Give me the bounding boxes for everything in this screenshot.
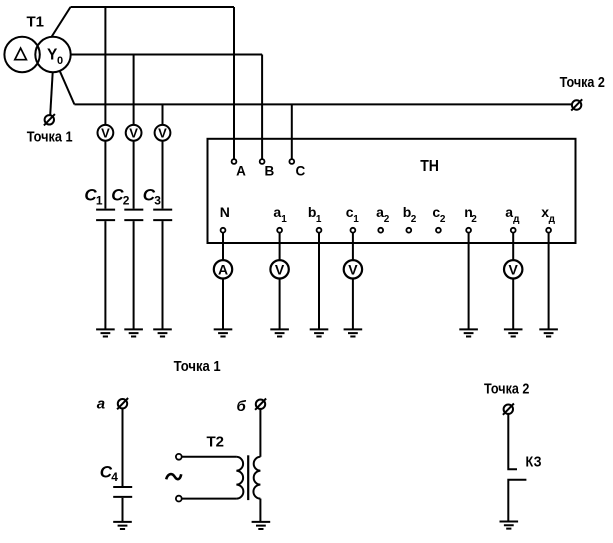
terminal point 2 circle <box>572 100 581 109</box>
svg-text:Точка 1: Точка 1 <box>27 130 73 146</box>
wire aд to voltmeter <box>512 233 514 261</box>
label c2 <box>432 204 446 225</box>
wire C1 to ground <box>104 221 106 329</box>
wire a to capacitor C4 <box>122 409 124 486</box>
ground below c1 <box>344 329 363 336</box>
svg-text:д: д <box>549 214 556 225</box>
wire phase B drop to voltmeter V2 <box>133 55 135 125</box>
label c1 <box>346 204 360 225</box>
label C4 <box>100 462 119 484</box>
wire top bus phase A <box>71 6 235 8</box>
transformer T2 primary winding <box>236 457 243 499</box>
svg-text:V: V <box>275 261 285 277</box>
wire c1 to voltmeter <box>352 233 354 261</box>
transformer T2 core <box>247 455 249 500</box>
switch lower contact <box>508 480 526 522</box>
wire N to ammeter <box>222 233 224 261</box>
svg-text:ТН: ТН <box>420 158 439 175</box>
terminal point 2b slash <box>503 404 514 415</box>
wire T1 phase C diagonal to bottom bus <box>60 72 74 105</box>
svg-text:Точка 2: Точка 2 <box>484 382 529 398</box>
label n2 <box>464 204 477 225</box>
ground below a1 <box>270 329 289 336</box>
transformer T2 secondary winding <box>253 457 260 499</box>
wire T1 phase B middle bus <box>71 54 262 56</box>
terminal b slash <box>255 399 266 410</box>
ammeter A circle <box>214 260 232 278</box>
ground below b1 <box>310 329 329 336</box>
svg-text:V: V <box>101 126 110 141</box>
terminal C circle <box>289 159 294 164</box>
ground below C3 <box>153 329 172 336</box>
wire V3 to capacitor C3 <box>162 141 164 209</box>
wire primary top <box>182 456 237 458</box>
wire ammeter to ground <box>222 279 224 330</box>
wire phase B drop to terminal B <box>261 55 263 160</box>
wire voltmeter V5 to ground <box>352 279 354 330</box>
voltmeter V4 circle <box>270 260 288 278</box>
ground below n2 <box>459 329 478 336</box>
terminal n2 circle <box>466 228 471 233</box>
label a2 <box>376 204 390 225</box>
terminal c1 circle <box>351 228 356 233</box>
svg-text:A: A <box>236 164 246 179</box>
wire primary bottom <box>182 498 237 500</box>
label aд <box>505 204 520 225</box>
wire C4 to ground <box>122 498 124 522</box>
voltage transformer TH box <box>208 139 576 243</box>
capacitor C2 plates <box>124 210 143 221</box>
wire phase A drop to terminal A <box>233 7 235 159</box>
voltmeter V2 circle <box>126 125 142 141</box>
terminal b2 circle <box>406 228 411 233</box>
wire C3 to ground <box>162 221 164 329</box>
wire point 2 down to switch <box>508 414 517 469</box>
voltmeter V1 circle <box>98 125 114 141</box>
capacitor C4 plates <box>113 487 132 497</box>
terminal b circle <box>256 400 265 409</box>
terminal B circle <box>260 159 265 164</box>
terminal point 2b circle <box>504 405 513 414</box>
label C1 <box>84 186 103 208</box>
svg-text:КЗ: КЗ <box>526 455 542 471</box>
ground below C2 <box>124 329 143 336</box>
svg-text:T2: T2 <box>207 433 225 450</box>
delta symbol <box>15 48 27 60</box>
svg-text:1: 1 <box>353 214 359 225</box>
wire T1 neutral to point 1 terminal <box>50 72 53 115</box>
ground below aд <box>504 329 523 336</box>
terminal point 1 slash <box>44 114 55 125</box>
svg-text:V: V <box>158 126 167 141</box>
svg-text:а: а <box>97 395 105 412</box>
svg-text:0: 0 <box>57 55 63 67</box>
wire phase C drop to terminal C <box>291 104 293 159</box>
svg-text:B: B <box>265 164 275 179</box>
ground below xд <box>539 329 558 336</box>
svg-text:A: A <box>218 261 228 277</box>
terminal point 2 slash <box>571 99 582 110</box>
wire n2 to ground <box>468 233 470 330</box>
svg-text:1: 1 <box>281 214 287 225</box>
svg-text:2: 2 <box>440 214 446 225</box>
svg-text:Точка 2: Точка 2 <box>560 75 605 91</box>
voltmeter V5 circle <box>344 260 362 278</box>
wire secondary to ground <box>259 499 261 522</box>
terminal a circle <box>118 399 127 408</box>
svg-text:2: 2 <box>411 214 417 225</box>
capacitor C3 plates <box>153 210 172 221</box>
wire C2 to ground <box>133 221 135 329</box>
terminal a slash <box>117 398 128 409</box>
svg-text:N: N <box>220 204 230 220</box>
capacitor C1 plates <box>96 210 115 221</box>
terminal T2 primary bottom circle <box>176 496 182 502</box>
voltmeter V6 circle <box>504 260 522 278</box>
wire b1 to ground <box>318 233 320 330</box>
terminal a1 circle <box>277 228 282 233</box>
transformer T1 delta winding circle <box>4 37 39 72</box>
svg-text:3: 3 <box>154 193 161 207</box>
label b2 <box>403 204 417 225</box>
svg-text:V: V <box>348 261 358 277</box>
svg-text:1: 1 <box>96 193 103 207</box>
wire voltmeter V6 to ground <box>512 279 514 330</box>
svg-text:V: V <box>129 126 138 141</box>
wire phase C drop to voltmeter V3 <box>162 104 164 125</box>
wire b to secondary <box>259 409 261 457</box>
svg-text:a: a <box>273 204 281 220</box>
wire bottom bus phase C to point 2 <box>74 103 571 105</box>
svg-text:1: 1 <box>316 214 322 225</box>
label Y0 <box>47 47 63 68</box>
transformer T1 wye winding circle <box>35 37 70 72</box>
label tilde AC source <box>166 474 181 479</box>
wire V1 to capacitor C1 <box>104 141 106 209</box>
wire voltmeter V4 to ground <box>279 279 281 330</box>
ground below C4 <box>113 522 132 529</box>
terminal aд circle <box>511 228 516 233</box>
svg-text:б: б <box>237 398 247 415</box>
terminal point 1 circle <box>45 115 54 124</box>
svg-text:д: д <box>513 214 520 225</box>
terminal xд circle <box>546 228 551 233</box>
svg-text:V: V <box>509 261 519 277</box>
terminal T2 primary top circle <box>176 454 182 460</box>
svg-text:2: 2 <box>384 214 390 225</box>
label b1 <box>308 204 322 225</box>
terminal b1 circle <box>317 228 322 233</box>
ground below T2 <box>252 522 271 529</box>
wire xд to ground <box>548 233 550 330</box>
label C3 <box>143 186 162 208</box>
wire T1 phase A diagonal to top bus <box>52 7 71 37</box>
ground below N <box>214 329 233 336</box>
label C2 <box>111 186 130 208</box>
svg-text:2: 2 <box>123 193 130 207</box>
label a1 <box>273 204 287 225</box>
svg-text:2: 2 <box>471 214 477 225</box>
voltmeter V3 circle <box>155 125 171 141</box>
svg-text:a: a <box>505 204 513 220</box>
wire phase A drop to voltmeter V1 <box>104 7 106 125</box>
svg-text:Точка 1: Точка 1 <box>174 359 221 375</box>
wire a1 to voltmeter <box>279 233 281 261</box>
svg-text:4: 4 <box>111 470 118 484</box>
svg-text:C: C <box>296 164 306 179</box>
wire V2 to capacitor C2 <box>133 141 135 209</box>
terminal N circle <box>221 228 226 233</box>
terminal a2 circle <box>378 228 383 233</box>
terminal c2 circle <box>436 228 441 233</box>
label xд <box>541 204 555 225</box>
ground below КЗ <box>500 522 519 529</box>
terminal A circle <box>232 159 237 164</box>
ground below C1 <box>96 329 115 336</box>
svg-text:T1: T1 <box>27 13 45 30</box>
